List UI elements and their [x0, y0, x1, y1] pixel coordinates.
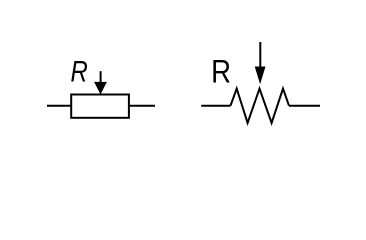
wire (right lead of R1) — [129, 105, 155, 107]
wire (left lead of R1) — [47, 105, 71, 107]
arrow (adjustment arrow onto R1) — [94, 71, 107, 94]
resistor R1 (IEC box symbol, left) — [47, 54, 155, 118]
arrow (adjustment arrow onto R2) — [255, 42, 266, 84]
svg-text:R: R — [211, 54, 231, 89]
wire (right lead of R2) — [289, 105, 320, 107]
wire (left lead of R2) — [201, 105, 230, 107]
svg-text:R: R — [71, 54, 88, 88]
resistor R1 body (rectangle) — [71, 95, 129, 118]
resistor R2 body (zigzag) — [231, 89, 290, 123]
resistor R2 (ANSI zigzag symbol, right) — [201, 42, 320, 123]
